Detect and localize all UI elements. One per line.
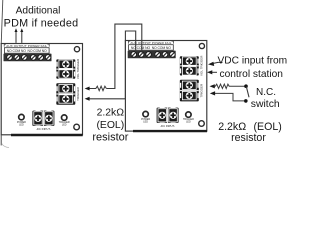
board 1 TRIGGER connector [56, 83, 75, 105]
arrowhead into board2 trigger pin 2 [210, 91, 215, 95]
svg-text:LED: LED [186, 120, 191, 123]
svg-text:resistor: resistor [92, 132, 128, 144]
faint corner mark bottom-left [2, 144, 9, 148]
svg-text:LED: LED [143, 120, 148, 123]
board 2 terminal label box NO COM NO [129, 45, 174, 51]
VDC input arrow 2 [207, 70, 217, 74]
svg-text:control station: control station [220, 69, 283, 80]
switch contact dot upper [244, 84, 248, 88]
wire: inner daisy-chain hook (board2 terminal to board1 trigger pin 2) [89, 31, 136, 99]
svg-text:(EOL): (EOL) [96, 120, 124, 131]
PDM board 2 (middle) outline [125, 41, 206, 132]
svg-text:VOL TRIGGER: VOL TRIGGER [200, 55, 204, 76]
resistor R2 2.2k EOL (in series with N.C. switch) on wire to board2 trigger [213, 84, 246, 88]
svg-text:TRIGGER: TRIGGER [200, 83, 204, 98]
board 1 VOL connector [56, 59, 75, 78]
board 1 terminal label box NO COM NO [4, 48, 49, 54]
board 2 thick bottom edge [133, 130, 207, 132]
svg-text:LED: LED [62, 123, 67, 126]
arrowhead into board1 trigger pin 1 [85, 87, 90, 91]
arrow up 1 (to additional PDM) [15, 28, 24, 43]
wire: outer daisy-chain hook (board2 terminal to board1 trigger, with resistor) [106, 24, 141, 88]
N.C. switch lower wire [213, 93, 245, 101]
switch lever [246, 87, 249, 98]
arrow up 2 (to additional PDM) [21, 32, 23, 43]
board 2 terminal screw strip [128, 51, 176, 59]
board 1 POWER LED screw [17, 114, 26, 126]
board 2 mounting hole top-right [199, 43, 204, 48]
svg-text:2.2kΩ: 2.2kΩ [97, 107, 125, 118]
svg-text:N.C.: N.C. [256, 87, 276, 98]
board 2 TRIGGER connector [180, 80, 199, 102]
arrowhead into board2 trigger pin 1 [210, 84, 215, 88]
board 2 POWER LED screw [141, 111, 150, 123]
switch contact dot lower [244, 99, 248, 103]
board 1 thick bottom edge [11, 134, 83, 136]
svg-text:NO COM NO NO COM NO: NO COM NO NO COM NO [7, 49, 47, 53]
board 1 mounting hole top-right [74, 47, 79, 52]
svg-text:NO COM NO NO COM NO: NO COM NO NO COM NO [131, 46, 171, 50]
board 2 mounting hole bottom-right [199, 121, 205, 127]
svg-text:-DC INPUT-: -DC INPUT- [36, 127, 51, 131]
svg-text:VOL TRIGGER: VOL TRIGGER [76, 58, 80, 79]
board 1 DC INPUT connector [32, 110, 54, 131]
board 1 mounting hole bottom-right [74, 124, 80, 130]
svg-text:resistor: resistor [231, 132, 266, 144]
board 1 left edge extension [0, 135, 2, 146]
VDC input arrow 1 [208, 62, 223, 66]
border artifact line top-left [1, 0, 3, 44]
PDM board 1 (left) outline [1, 44, 82, 135]
board 1 TRIGGER LED screw [59, 115, 70, 127]
board 2 terminal strip label AUX OUTPUT POWER FAIL [128, 41, 173, 45]
svg-text:Additional: Additional [16, 6, 61, 17]
resistor R1 2.2k EOL zigzag [89, 86, 107, 91]
svg-text:switch: switch [251, 99, 280, 110]
board 2 VOL connector [180, 56, 199, 75]
board 1 terminal screw strip [4, 54, 52, 62]
arrowhead into board1 trigger pin 2 [85, 97, 90, 101]
board 1 terminal strip label AUX OUTPUT POWER FAIL [4, 44, 49, 48]
svg-text:TRIGGER: TRIGGER [76, 86, 80, 101]
wire continuation into board2 terminal (inner hook) [135, 41, 137, 53]
svg-text:-DC INPUT-: -DC INPUT- [160, 124, 175, 128]
board 2 TRIGGER LED screw [183, 112, 194, 124]
svg-text:VDC input from: VDC input from [218, 55, 288, 66]
svg-text:PDM if needed: PDM if needed [4, 18, 79, 30]
wire continuation into board2 terminal (outer hook) [141, 41, 143, 53]
svg-text:LED: LED [19, 123, 24, 126]
board 2 DC INPUT connector [157, 107, 179, 128]
